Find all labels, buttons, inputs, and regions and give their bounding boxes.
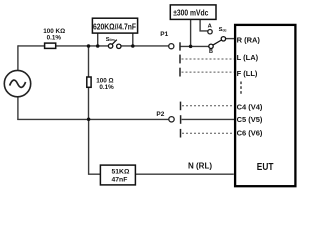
wire left vertical lower [17,97,19,120]
wire 620K box right drop [132,33,134,46]
svg-text:0.1%: 0.1% [47,35,62,42]
terminal P1 [169,44,174,49]
svg-text:51KΩ: 51KΩ [112,169,130,176]
svg-text:L (LA): L (LA) [237,53,259,62]
svg-text:C6 (V6): C6 (V6) [237,128,263,137]
junction dot 620K right [131,44,135,48]
lead end-cap bar P1 [179,42,181,50]
wire 300mVdc box left drop [190,19,192,46]
wire bottom horizontal [17,118,169,120]
svg-text:620KΩ//4.7nF: 620KΩ//4.7nF [93,23,136,32]
wire 620K box left drop [97,33,99,46]
svg-text:Slim: Slim [106,37,115,43]
wire Sdc pole to EUT R pin [226,38,235,40]
wire P1 bar to Sdc throw B [180,45,209,47]
lead end-cap bar P2 [180,115,182,124]
lead end-cap bar F [179,68,181,77]
switch Sdc pole contact [221,37,225,41]
dashed lead F (LL) [182,71,234,73]
junction dot 300mVdc tap [189,45,193,49]
svg-text:Sdc: Sdc [219,27,227,33]
svg-text:47nF: 47nF [112,177,128,184]
wire 300mVdc box to terminal A [200,19,208,31]
wire P2 bar to EUT C5 pin [182,118,235,120]
svg-text:N (RL): N (RL) [188,161,212,170]
svg-text:P1: P1 [160,31,168,38]
svg-text:±300 mVdc: ±300 mVdc [173,8,209,18]
svg-text:P2: P2 [156,111,164,118]
svg-text:C5 (V5): C5 (V5) [237,115,263,124]
wire top horizontal right of Slim [121,45,169,47]
junction dot top 100ohm tap [87,44,91,48]
svg-text:0.1%: 0.1% [99,84,114,91]
wire junction down to 51K box [89,119,101,174]
resistor R2 100ohm [87,77,91,87]
box Z2 51K/47nF [100,165,135,185]
EUT box [235,25,295,186]
box V2 300mVdc [170,5,216,20]
svg-text:EUT: EUT [257,161,274,173]
wire 51K box to EUT N pin [135,173,233,175]
junction dot 620K left [96,44,100,48]
switch Sdc blade [213,40,222,45]
svg-text:A: A [208,24,213,30]
terminal A [208,30,212,34]
lead end-cap bar L [179,55,181,64]
wire top horizontal left [18,45,109,47]
wire left vertical upper [17,45,19,70]
switch Slim blade [112,40,117,45]
svg-text:R (RA): R (RA) [237,35,261,44]
dashed lead C6 (V6) [182,132,234,134]
AC source V1 [4,70,30,96]
svg-text:B: B [209,49,213,55]
lead end-cap bar C4 [180,102,182,111]
switch Sdc throw B contact [209,44,213,48]
dashed ellipsis inside EUT [240,82,242,95]
terminal P2 [169,117,174,122]
switch Slim contact right [117,44,121,48]
svg-text:F (LL): F (LL) [237,69,258,78]
lead end-cap bar C6 [180,129,182,138]
wire 100ohm vertical branch [88,46,90,120]
resistor R1 100K [45,43,56,48]
junction dot bottom 100ohm tap [87,118,91,122]
svg-text:C4 (V4): C4 (V4) [237,102,263,111]
switch Slim contact left [108,44,112,48]
dashed lead L (LA) [182,58,234,60]
box Z1 620K/4.7nF [92,18,137,33]
dashed lead C4 (V4) [182,105,234,107]
